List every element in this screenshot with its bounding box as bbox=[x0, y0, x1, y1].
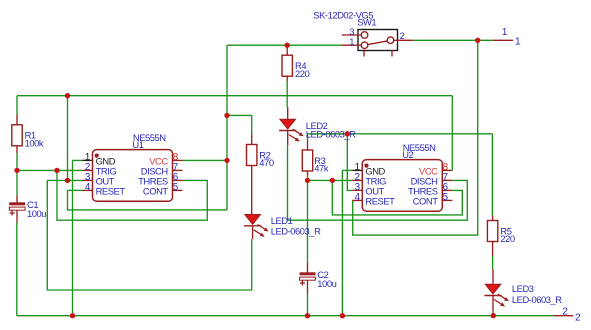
wire OUT junction up x=67.5 bbox=[67, 96, 69, 181]
svg-text:2: 2 bbox=[400, 30, 405, 41]
wire U2.OUT rail y=134 bbox=[308, 133, 493, 135]
wire RESET U1 horizontal bbox=[68, 189, 83, 191]
wire GND U2 down x=342.4 bbox=[341, 170, 343, 315]
LED1 diode bbox=[245, 215, 260, 225]
resistor R3 bbox=[302, 150, 312, 171]
svg-text:4: 4 bbox=[85, 182, 91, 193]
svg-text:4: 4 bbox=[355, 192, 361, 203]
R1 resistor pin stubs bbox=[16, 115, 18, 125]
svg-text:100u: 100u bbox=[27, 208, 46, 219]
svg-text:SW1: SW1 bbox=[357, 16, 376, 27]
SW1 lever bbox=[368, 41, 388, 45]
svg-text:RESET: RESET bbox=[365, 195, 395, 206]
op-amp timer IC U1 NE555N bbox=[93, 150, 173, 202]
svg-text:220: 220 bbox=[295, 68, 310, 79]
capacitor C2 stubs bbox=[307, 263, 309, 273]
svg-text:100k: 100k bbox=[25, 137, 44, 148]
wire R2 feed from rail y=115.4 bbox=[227, 115, 252, 134]
svg-text:47k: 47k bbox=[314, 163, 329, 174]
junction dots bbox=[65, 93, 70, 98]
wire OUT U2 up to y=134 rail bbox=[347, 134, 352, 191]
capacitor C2 bbox=[300, 272, 316, 275]
svg-text:220: 220 bbox=[500, 233, 515, 244]
svg-text:470: 470 bbox=[259, 157, 274, 168]
svg-text:1: 1 bbox=[515, 36, 521, 47]
timer IC U2 NE555N bbox=[362, 160, 442, 212]
resistor R4 bbox=[282, 55, 292, 76]
SW1 pin 3 stub bbox=[342, 34, 362, 36]
R5 bottom stub bbox=[492, 242, 494, 256]
R2 bottom to LED1 anode red link bbox=[251, 166, 253, 215]
wire OUT U1 horizontal y=180.4 bbox=[47, 179, 82, 181]
svg-text:100u: 100u bbox=[317, 278, 336, 289]
U1 pin stubs left bbox=[83, 159, 93, 161]
LED2 diode bbox=[280, 119, 295, 129]
LED3 anode stub bbox=[492, 269, 494, 284]
wire C1 bottom to GND rail bbox=[16, 223, 18, 316]
wire rail down to R1 top bbox=[16, 96, 18, 115]
resistor R4 stubs bbox=[286, 45, 288, 55]
LED2 anode stub bbox=[287, 107, 289, 119]
wire C2 top link down x=307.5 bbox=[307, 180, 309, 263]
wire U2 VCC drop x=451.3 bbox=[451, 96, 453, 171]
wire VCC rail x=227 switch to y=210.3 bbox=[226, 45, 228, 210]
R3 bottom stub bbox=[307, 171, 309, 176]
SW1 mounting stubs bbox=[363, 51, 365, 57]
switch SW1 SK-12D02-VG5 body bbox=[358, 30, 398, 51]
svg-text:5: 5 bbox=[173, 182, 179, 193]
LED2 cathode stub bbox=[287, 131, 289, 146]
svg-text:CONT: CONT bbox=[413, 195, 438, 206]
wire RESET to VCC rail link bbox=[68, 190, 228, 210]
svg-text:CONT: CONT bbox=[143, 185, 168, 196]
R3 top stub bbox=[307, 140, 309, 150]
wire OUT down to LED1 cathode y=290 bbox=[47, 180, 251, 290]
resistor R2 bbox=[247, 145, 257, 166]
port pin 1 battery positive bbox=[493, 39, 513, 41]
wire R3 bottom to TRIG U2 junction bbox=[307, 176, 309, 181]
wire LED2 cathode to U2 DISCH bbox=[288, 146, 468, 221]
LED3 diode bbox=[485, 284, 500, 294]
LED3 cathode stub bbox=[492, 296, 494, 312]
wire R5 to LED3 link bbox=[492, 256, 494, 269]
SW1 pin 1 stub bbox=[342, 44, 362, 46]
resistor R1 bbox=[12, 125, 22, 146]
svg-text:LED1: LED1 bbox=[271, 215, 293, 226]
wire VCC stub U1 pin8 to rail bbox=[183, 159, 228, 161]
svg-text:RESET: RESET bbox=[96, 185, 126, 196]
wire LED3 cathode to GND rail bbox=[492, 311, 494, 316]
wire bottom GND rail y=315.7 bbox=[17, 315, 553, 317]
wire GND U1 down x=72.5 bbox=[72, 160, 74, 315]
U1 pin stubs right bbox=[173, 159, 183, 161]
U2 pin stubs left bbox=[352, 169, 362, 171]
capacitor C1 bbox=[9, 202, 25, 205]
wire top rail U1.OUT net y=96 bbox=[17, 95, 452, 97]
wire rail to R3 top bbox=[307, 134, 309, 140]
wire TRIG junction down to C1 bbox=[16, 170, 18, 195]
svg-text:2: 2 bbox=[562, 306, 568, 317]
svg-text:U2: U2 bbox=[402, 149, 413, 160]
port pin 2 battery negative bbox=[553, 315, 573, 317]
svg-text:1: 1 bbox=[502, 27, 508, 38]
wire GND U2 pin1 link bbox=[342, 169, 352, 171]
svg-text:LED-0603_R: LED-0603_R bbox=[271, 225, 321, 236]
svg-text:LED-0603_R: LED-0603_R bbox=[512, 294, 562, 305]
wire TRIG U2 horizontal y=180.4 bbox=[308, 179, 353, 181]
R5 top stub bbox=[492, 216, 494, 221]
R2 feed stub bbox=[251, 135, 253, 145]
svg-text:1: 1 bbox=[349, 36, 354, 47]
LED1 cathode stub bbox=[252, 226, 254, 240]
wire SW1 pin2 to port 1 bbox=[413, 39, 493, 41]
SW1 pin 2 stub bbox=[394, 39, 413, 41]
svg-text:LED3: LED3 bbox=[512, 283, 534, 294]
svg-text:U1: U1 bbox=[132, 139, 143, 150]
wire RESET U2 to battery net bbox=[353, 40, 478, 235]
resistor R5 bbox=[487, 221, 497, 242]
wire R1 bottom to TRIG junction bbox=[16, 153, 18, 170]
U2 pin stubs right bbox=[442, 169, 452, 171]
wire rail down to R5 top x=492.4 bbox=[491, 134, 493, 216]
wire THRES-TRIG loop U2 bbox=[332, 180, 462, 215]
svg-text:2: 2 bbox=[575, 313, 581, 324]
wire R4 bottom to LED2 anode bbox=[286, 81, 288, 107]
wire GND U1 pin1 link bbox=[73, 159, 83, 161]
capacitor C1 pin stubs bbox=[16, 195, 18, 202]
svg-text:5: 5 bbox=[443, 192, 449, 203]
wire switched supply y=45.2 to SW1 pin1 bbox=[227, 44, 342, 46]
wire TRIG U1 horizontal y=170.4 bbox=[17, 169, 83, 171]
wire C2 bottom to GND rail bbox=[307, 293, 309, 316]
wire THRES-TRIG loop U1 bbox=[57, 170, 207, 220]
SW1 contact circles bbox=[361, 32, 368, 39]
